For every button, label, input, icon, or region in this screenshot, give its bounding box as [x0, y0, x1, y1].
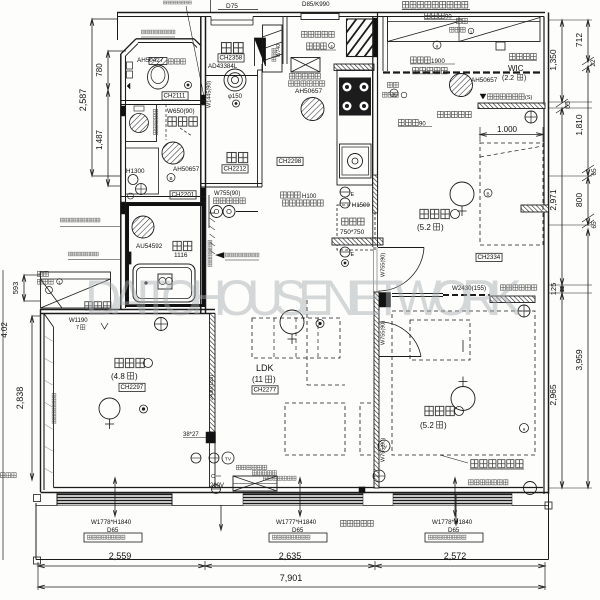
- fixture: toilet paper holder: [127, 62, 133, 69]
- wall hatch ticks LDK left top: [210, 218, 216, 222]
- fixture: washing machine space: [126, 148, 159, 194]
- svg-text:W1777*H1840: W1777*H1840: [276, 519, 317, 526]
- fixture: LDK small circled: [316, 320, 324, 328]
- svg-text:CH2334: CH2334: [478, 254, 501, 261]
- svg-text:W1778*H1840: W1778*H1840: [91, 519, 132, 526]
- wall: corridor/utility divider (vertical x200-206): [200, 17, 202, 314]
- fixture: washer pan circle below bath: [155, 318, 168, 331]
- label: bedroom1 name: [114, 357, 146, 369]
- door mark bedroom1: [101, 323, 108, 329]
- door: BR3 door leaf+arc: [378, 247, 424, 249]
- divider: pocket hatch: [490, 296, 535, 303]
- label: accent cloth top leader: [163, 1, 192, 5]
- door: BR2 door leaf+arc: [379, 356, 421, 358]
- label: sankaku tare-wall: [437, 111, 472, 119]
- wall: right wall hatched band BR3: [521, 205, 549, 212]
- svg-text:CH2212: CH2212: [224, 166, 247, 173]
- wall: bottom wall of unit: [41, 492, 549, 494]
- svg-text:AH50657: AH50657: [295, 88, 322, 95]
- label: genkan: [221, 41, 245, 54]
- label: kabe-fukashi: [509, 53, 537, 61]
- svg-text:AH50427: AH50427: [137, 57, 164, 64]
- wall: divider hatched x373 lower: [374, 292, 379, 488]
- label: pantry shelf 4: [306, 42, 327, 50]
- svg-text:W755(90): W755(90): [214, 191, 240, 197]
- wall: black piers on utility wall: [121, 106, 126, 116]
- fixture: circled A BR3: [484, 189, 492, 197]
- wall: top-left outer corner vertical: [117, 13, 119, 41]
- dim extension lines right: [549, 19, 593, 21]
- label: yokushitsu 1116: [172, 240, 193, 252]
- wall: divider black end block: [206, 432, 216, 443]
- dim: 2838 left: [32, 315, 40, 317]
- wall: right outer wall: [548, 13, 550, 495]
- fixture: LDK ceiling light: [280, 310, 304, 334]
- svg-text:E: E: [351, 252, 355, 258]
- svg-text:CH2297: CH2297: [121, 384, 144, 391]
- wall: bedroom1 left inner face: [53, 327, 55, 488]
- dim: bottom row spans: [37, 562, 39, 590]
- svg-text:W740: W740: [276, 44, 282, 57]
- fixture: vanity: [126, 105, 157, 142]
- fixture: circled cross right: [525, 111, 537, 123]
- svg-text:(5.2: (5.2: [420, 421, 434, 430]
- BR3 dashed ceiling rect: [480, 143, 543, 245]
- label: makura-dana right: [456, 18, 468, 25]
- wall: left utility block outer wall w/ chamfer: [120, 54, 122, 310]
- svg-text:(4.8: (4.8: [111, 372, 125, 381]
- label: pantry name: [301, 31, 335, 39]
- svg-text:(11: (11: [252, 375, 264, 384]
- LDK dashed furniture: [252, 318, 340, 358]
- label: tare-wall H100: [280, 191, 301, 199]
- door: bath window left: [126, 252, 131, 264]
- svg-text:7: 7: [76, 325, 79, 331]
- fixture: bedroom1 ceiling light: [99, 398, 120, 419]
- svg-text:D85/K990: D85/K990: [302, 1, 330, 8]
- label: BR3 name: [419, 208, 451, 220]
- floor access hatch box: [291, 58, 320, 73]
- aircon box LDK: [233, 476, 277, 491]
- svg-text:AU54592: AU54592: [136, 243, 163, 250]
- svg-text:750*750: 750*750: [340, 229, 365, 236]
- dim: 780 left: [108, 50, 126, 52]
- closet: yoshuno storage w/ brace: [41, 272, 111, 308]
- dim: 593 left: [24, 274, 40, 276]
- svg-text:CH2298: CH2298: [279, 158, 302, 165]
- svg-text:): ): [441, 223, 444, 232]
- svg-text:2,587: 2,587: [78, 89, 88, 112]
- divider: dashed band: [443, 294, 490, 296]
- fixture: BR3 pendant light: [450, 182, 474, 206]
- (TV) outlet at BR2 wall: [378, 440, 390, 452]
- fixture: bath wash area hatched circle: [132, 216, 154, 238]
- fixture: bedroom1 small mark: [140, 405, 148, 413]
- wall: corridor/kitchen divider x257-262: [257, 70, 259, 187]
- shoebox W740: [263, 25, 283, 72]
- wall: pantry/kitchen hatched band: [334, 64, 374, 71]
- label: corridor: [226, 151, 249, 164]
- svg-text:WIC: WIC: [508, 64, 524, 73]
- divider BR3/BR2: sliding door track: [392, 293, 443, 295]
- dim: 65b right outer: [582, 165, 594, 173]
- wall: toilet/washroom divider y100: [121, 100, 206, 102]
- label: tenjo-mikiri: [412, 67, 448, 75]
- fixture: kitchen sink: [340, 144, 372, 178]
- wall: curtain hatch band: [478, 103, 545, 109]
- svg-text:CH2201: CH2201: [172, 192, 195, 199]
- wall: LDK/bedrooms divider x373-378 upper: [372, 213, 374, 247]
- svg-text:1,810: 1,810: [574, 114, 584, 136]
- dim: 3959 right outer: [587, 229, 589, 488]
- outlet below fridge wall: [340, 247, 350, 257]
- svg-text:(2.2: (2.2: [502, 75, 514, 82]
- dim: 800 right outer: [587, 177, 589, 225]
- svg-text:): ): [524, 75, 526, 82]
- door: LDK->BR3 opening thin jambs: [373, 247, 375, 292]
- wall: entrance step edge: [206, 75, 258, 77]
- wall: kitchen right wall upper: [372, 17, 374, 214]
- wall: below block to floor: [209, 443, 211, 488]
- fixture: entrance light concentric circles: [224, 69, 246, 91]
- fixture: washroom drain hatched circle: [162, 142, 184, 164]
- svg-text:TV: TV: [225, 457, 232, 463]
- svg-text:TV: TV: [381, 445, 388, 451]
- fixture: bathtub: [133, 264, 195, 302]
- label: yoshuno: [84, 301, 112, 311]
- svg-text:2,971: 2,971: [548, 189, 558, 211]
- label: curtain rail S: [480, 94, 486, 99]
- label: aircon fragment left edge: [0, 472, 17, 478]
- svg-text:φ150: φ150: [228, 94, 243, 100]
- label: bath right wall vertical: [207, 240, 212, 267]
- label: BR2 name: [424, 405, 456, 417]
- closet: WIC top shelf w/ diagonals: [388, 17, 541, 42]
- wall: hatched segment below kitchen: [373, 175, 378, 213]
- balcony outline: [36, 559, 549, 561]
- svg-text:DAITOHOUSENETWORK: DAITOHOUSENETWORK: [85, 270, 522, 326]
- dim: 65c right outer: [582, 214, 594, 222]
- dim: 125 right inner: [561, 285, 563, 293]
- svg-text:B: B: [486, 192, 489, 197]
- label: aircon board BR2: [468, 479, 509, 485]
- svg-text:65: 65: [591, 221, 598, 229]
- dim: 1350 right inner: [561, 20, 563, 102]
- label: kabe-takasa1900: [410, 56, 431, 64]
- svg-text:1,350: 1,350: [548, 49, 558, 71]
- svg-text:780: 780: [95, 63, 104, 77]
- svg-text:2,635: 2,635: [279, 551, 302, 561]
- svg-text:(S): (S): [525, 95, 533, 101]
- fixture: toilet bowl: [148, 65, 169, 89]
- wall: WIC/corridor top region: [382, 17, 384, 72]
- small squares bottom-right of windows: [359, 487, 365, 493]
- ceiling divider dash-bold line: [383, 71, 543, 73]
- svg-text:B: B: [169, 176, 172, 181]
- wall: fridge hatched band y238: [332, 238, 383, 245]
- svg-text:H1300: H1300: [126, 168, 145, 175]
- door: corridor-LDK sliding door w/ circles: [211, 206, 223, 218]
- dim: total width: [38, 586, 545, 588]
- svg-text:2,559: 2,559: [109, 551, 132, 561]
- svg-text:W650(90): W650(90): [167, 108, 195, 115]
- svg-text:1,487: 1,487: [95, 129, 104, 150]
- window: pantry top D85/K990: [301, 14, 339, 20]
- label: H1500 + outlets: [340, 187, 350, 197]
- label: refrigerator: [341, 217, 365, 226]
- label: senmenshitsu: [167, 116, 199, 128]
- svg-text:H1500: H1500: [352, 203, 370, 209]
- label: mokume-waku90 low: [398, 119, 419, 127]
- wall: toilet top wall w/ right chamfer: [136, 38, 194, 40]
- fixture: kitchen counter outline: [337, 70, 373, 185]
- balcony slab edge ticks: [36, 505, 57, 507]
- svg-text:C: C: [211, 474, 215, 480]
- fixture: WIC hatched circle AH50657: [450, 74, 473, 97]
- LDK accent cloth label: [216, 253, 224, 259]
- svg-text:LDK: LDK: [256, 363, 274, 373]
- label: makura-dana pipe1: [37, 271, 49, 278]
- svg-text:): ): [444, 421, 447, 430]
- svg-text:7,901: 7,901: [280, 573, 303, 583]
- svg-text:E: E: [351, 192, 355, 198]
- svg-text:AH50657: AH50657: [471, 77, 498, 84]
- svg-text:65: 65: [565, 101, 572, 109]
- svg-text:3,959: 3,959: [574, 349, 584, 371]
- door: washroom dashes: [165, 104, 167, 140]
- label: large opening note: [402, 1, 469, 9]
- svg-text:593: 593: [11, 282, 20, 295]
- wall: entrance/pantry divider x283: [282, 17, 284, 65]
- svg-text:D75: D75: [226, 3, 238, 10]
- fixture: circled cross at pocket: [518, 305, 530, 317]
- svg-text:2430(155): 2430(155): [209, 375, 215, 400]
- label: toilet katakana: [168, 58, 186, 65]
- svg-text:800: 800: [574, 193, 584, 207]
- label: kabetsuke curtain + leader: [68, 252, 99, 257]
- dim: 712 right outer: [587, 20, 589, 62]
- label: ichimen-nomi accent + leader: [60, 218, 101, 223]
- svg-text:): ): [135, 372, 138, 381]
- wall: washroom/bath divider y196: [121, 196, 206, 198]
- svg-text:2,572: 2,572: [444, 551, 467, 561]
- label: makura-dana WIC-left: [387, 82, 399, 89]
- window: LDK bottom sash W1777: [243, 494, 363, 496]
- wall: LDK-bedroom1 divider hatched: [210, 314, 216, 433]
- label: tobukuro veneer-less: [500, 284, 537, 291]
- svg-text:125: 125: [549, 283, 558, 296]
- label: shoes box vertical: [271, 48, 276, 62]
- svg-text:65: 65: [591, 168, 598, 176]
- dim: 2587 left: [92, 18, 117, 20]
- wall: unit top boundary: [117, 12, 545, 14]
- svg-text:CH2358: CH2358: [220, 55, 243, 62]
- wall hatch ticks on left wall: [44, 336, 53, 341]
- arrow: window center arrows: [114, 478, 116, 516]
- fixture: BR2 pendant light: [451, 387, 475, 411]
- label: balcony: [340, 520, 374, 528]
- label: yukashita tenkenko: [289, 73, 321, 80]
- label: mokume-waku90 top: [424, 12, 445, 20]
- dim: 1487 left: [107, 90, 109, 186]
- dim: 1810 right outer: [587, 66, 589, 176]
- svg-text:): ): [273, 375, 276, 384]
- fixture: toilet light: [185, 82, 192, 89]
- window: bedroom2 bottom sash W1778: [393, 494, 512, 496]
- svg-text:1.000: 1.000: [497, 125, 518, 134]
- dim: 1000 inside BR3: [480, 134, 543, 136]
- wall: corridor bottom / LDK top: [201, 183, 262, 185]
- svg-text:200V: 200V: [210, 483, 224, 489]
- svg-text:712: 712: [574, 33, 584, 47]
- BR2 dashed ceiling rect: [392, 311, 535, 455]
- svg-text:AH50657: AH50657: [173, 166, 200, 173]
- svg-text:1116: 1116: [174, 252, 188, 259]
- svg-text:2,965: 2,965: [548, 384, 558, 406]
- label: vanity vertical: [153, 109, 159, 135]
- svg-text:38*27: 38*27: [183, 432, 199, 438]
- wall: bath thick black outline: [128, 205, 204, 306]
- svg-text:CH2111: CH2111: [164, 93, 186, 100]
- dim: 65a right outer: [582, 57, 594, 65]
- label: circled B washroom: [167, 174, 175, 182]
- dim: 2965 right inner: [561, 293, 563, 488]
- svg-text:2,838: 2,838: [15, 387, 25, 410]
- wall: bedroom1 left outer wall: [40, 310, 42, 493]
- svg-text:W1445(90): W1445(90): [207, 81, 213, 108]
- svg-text:CH2277: CH2277: [254, 387, 277, 394]
- label: accent cloth vertical on left wall: [52, 393, 57, 424]
- svg-text:4.02: 4.02: [0, 322, 9, 338]
- door: entrance opening + step lines: [211, 19, 253, 21]
- dim: 65 right inner: [556, 99, 568, 107]
- wall: utility block bottom / bedroom1 top wall: [40, 309, 215, 311]
- svg-text:(5.2: (5.2: [417, 223, 431, 232]
- svg-text:W1778*H1840: W1778*H1840: [432, 519, 473, 526]
- window: bedroom1 bottom sash W1778: [57, 494, 172, 496]
- label: oriage ceiling: [470, 459, 524, 469]
- svg-text:22: 22: [590, 59, 597, 67]
- dim: far-left clipped total: [2, 270, 4, 560]
- fixture: gas stove dark: [340, 78, 371, 115]
- dim: 2971 right inner: [561, 108, 563, 285]
- divider BR3/BR2: black junction: [379, 293, 391, 308]
- outlets at LDK bottom left: [191, 453, 201, 463]
- fixture: kitchen hatched circle: [301, 98, 324, 121]
- door: entrance swing dark triangle: [255, 38, 266, 66]
- arrow: BR2 drain down: [455, 495, 457, 525]
